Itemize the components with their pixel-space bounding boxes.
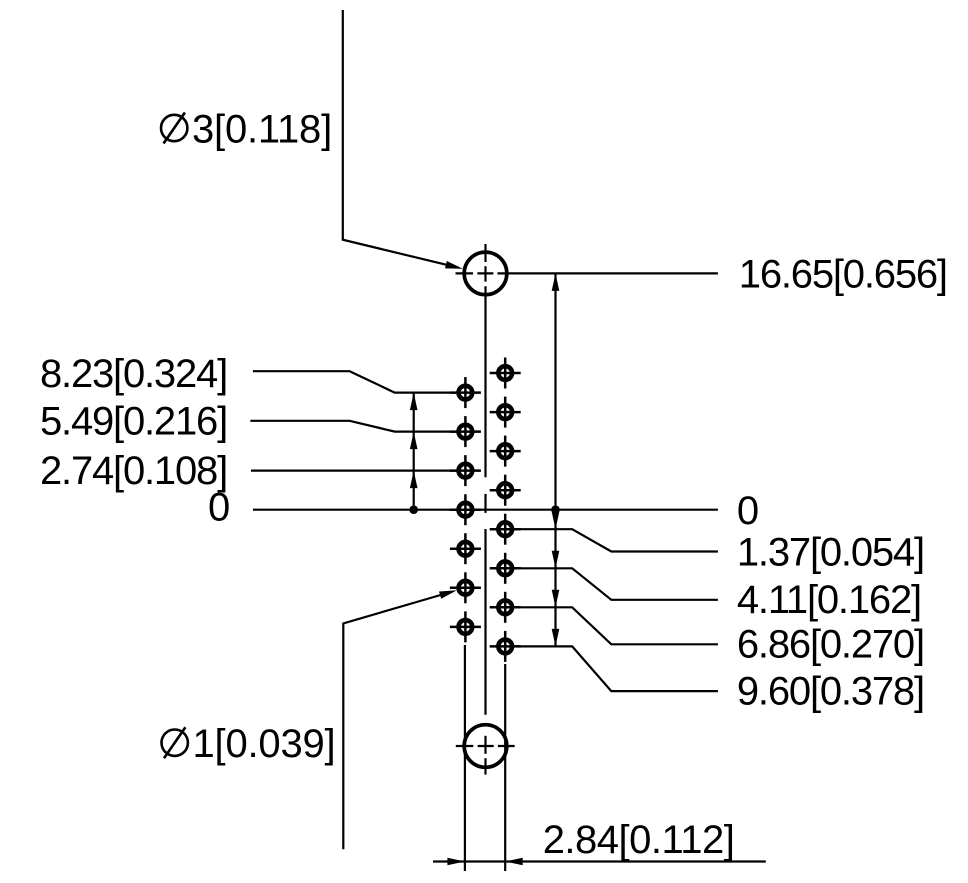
svg-text:2.84[0.112]: 2.84[0.112] xyxy=(543,818,735,862)
top hole centermark vertical xyxy=(484,244,486,477)
svg-text:0: 0 xyxy=(208,486,229,530)
svg-text:6.86[0.270]: 6.86[0.270] xyxy=(737,622,924,666)
datum text 0 (right) xyxy=(737,489,758,533)
svg-text:1[0.039]: 1[0.039] xyxy=(193,722,336,766)
hole L5 (plated through-hole, Ø1) xyxy=(450,533,481,564)
dimension text 2.84 [0.112] xyxy=(543,818,735,862)
hole R8 (plated through-hole, Ø1) xyxy=(490,631,521,662)
hole R7 (plated through-hole, Ø1) xyxy=(490,592,521,623)
label Ø1 [0.039] xyxy=(162,722,336,766)
dimension text 6.86 [0.270] xyxy=(737,622,924,666)
top hole centermark horizontal / 16.65 dimension line xyxy=(456,272,718,274)
datum text 0 (left) xyxy=(208,486,229,530)
svg-text:9.60[0.378]: 9.60[0.378] xyxy=(737,669,924,713)
hole R1 (plated through-hole, Ø1) xyxy=(490,358,521,389)
leader for 4.11 dimension xyxy=(512,568,718,600)
svg-text:1.37[0.054]: 1.37[0.054] xyxy=(737,530,924,574)
mounting hole bottom (Ø3) xyxy=(464,725,507,768)
zero baseline (datum line) xyxy=(253,509,718,511)
hole L4 (plated through-hole, Ø1) xyxy=(450,494,481,525)
leader for 5.49 dimension xyxy=(250,421,457,432)
hole R2 (plated through-hole, Ø1) xyxy=(490,397,521,428)
hole L6 (plated through-hole, Ø1) xyxy=(450,572,481,603)
leader for 6.86 dimension xyxy=(512,607,718,644)
leader for 8.23 dimension xyxy=(253,371,457,392)
dimension text 5.49 [0.216] xyxy=(40,400,227,444)
leader for 9.60 dimension xyxy=(512,646,718,691)
svg-text:3[0.118]: 3[0.118] xyxy=(192,107,332,151)
mounting hole top (Ø3) xyxy=(464,252,507,295)
svg-text:8.23[0.324]: 8.23[0.324] xyxy=(40,352,227,396)
bottom hole centermark horizontal xyxy=(456,745,515,747)
vertical centerline (axis) lower segment xyxy=(484,529,486,715)
leader line for Ø1 dimension xyxy=(343,590,457,849)
dimension text 4.11 [0.162] xyxy=(737,578,921,622)
hole L3 (plated through-hole, Ø1) xyxy=(450,455,481,486)
dimension text 8.23 [0.324] xyxy=(40,352,227,396)
2.84 dimension: left extension line xyxy=(464,645,466,871)
hole R5 (plated through-hole, Ø1) xyxy=(490,514,521,545)
dimension text 2.74 [0.108] xyxy=(40,449,227,493)
right ordinate dimension line (16.65 up, 1.37/4.11/6.86/9.60 down) xyxy=(551,273,560,646)
left ordinate dimension line with origin dot and arrows xyxy=(409,393,418,514)
dimension text 1.37 [0.054] xyxy=(737,530,924,574)
hole R6 (plated through-hole, Ø1) xyxy=(490,553,521,584)
svg-text:0: 0 xyxy=(737,489,758,533)
hole L7 (plated through-hole, Ø1) xyxy=(450,611,481,642)
label Ø3 [0.118] xyxy=(161,107,332,151)
dimension text 9.60 [0.378] xyxy=(737,669,924,713)
dimension text 16.65 [0.656] xyxy=(739,253,947,297)
bottom hole centermark vertical xyxy=(484,736,486,775)
svg-text:2.74[0.108]: 2.74[0.108] xyxy=(40,449,227,493)
hole L2 (plated through-hole, Ø1) xyxy=(450,416,481,447)
hole R4 (plated through-hole, Ø1) xyxy=(490,475,521,506)
leader for 2.74 dimension xyxy=(251,470,457,472)
vertical centerline (axis) middle dash xyxy=(484,494,486,513)
svg-text:16.65[0.656]: 16.65[0.656] xyxy=(739,253,947,297)
2.84 dimension: right extension line xyxy=(504,664,506,871)
svg-text:4.11[0.162]: 4.11[0.162] xyxy=(737,578,921,622)
leader for 1.37 dimension xyxy=(512,529,718,551)
hole L1 (plated through-hole, Ø1) xyxy=(450,377,481,408)
leader line for Ø3 dimension xyxy=(343,10,463,269)
svg-text:5.49[0.216]: 5.49[0.216] xyxy=(40,400,227,444)
hole R3 (plated through-hole, Ø1) xyxy=(490,436,521,467)
2.84 dimension line with arrows xyxy=(433,858,766,866)
